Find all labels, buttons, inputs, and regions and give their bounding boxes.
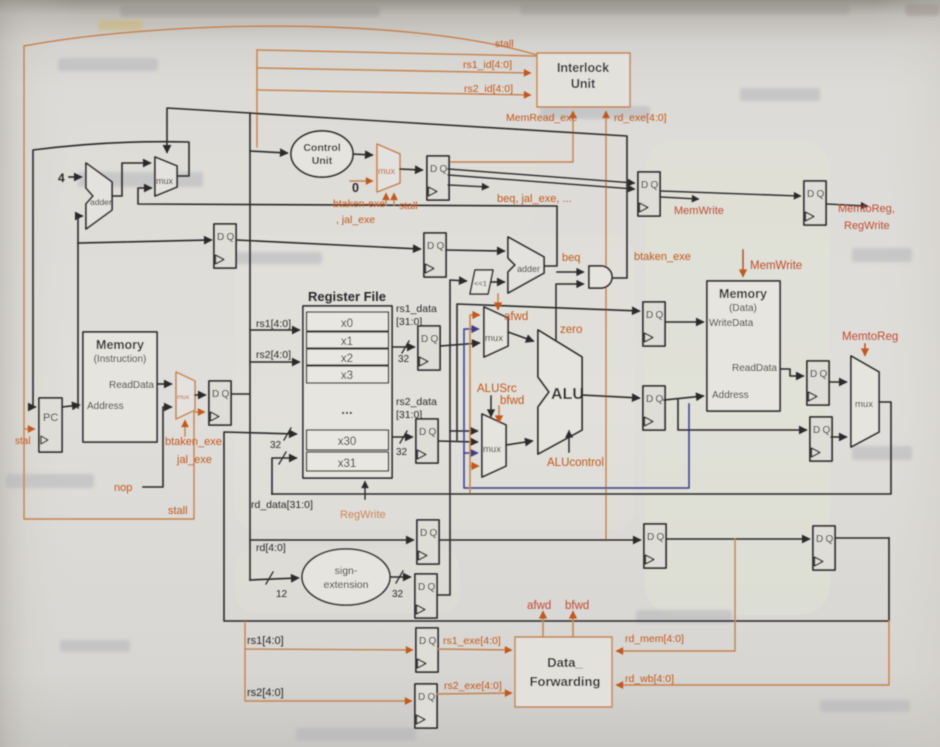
svg-text:stall: stall [168,505,188,517]
wire imm from bus to sign-extension [250,578,298,580]
svg-text:adder: adder [90,197,112,207]
slash 32 on rs1_data [402,341,409,353]
wire DQ-G rs1_data into afwd mux [440,343,479,346]
svg-text:WriteData: WriteData [709,318,754,329]
slash 32 on rs2_data [400,431,407,443]
svg-text:PC: PC [43,412,58,424]
svg-text:MemtoReg,: MemtoReg, [838,203,895,215]
register row x31 [307,452,389,471]
flip-flop DQ-M (rd EX) [417,520,439,564]
wire ALU result to DQ-J [582,395,639,398]
wire DQ-E control to DQ-F [660,191,800,196]
svg-text:, jal_exe: , jal_exe [336,214,375,226]
svg-text:stall: stall [399,200,418,212]
wire rd lane from bus to DQ-M [250,539,413,541]
wire adder out to PC mux [112,163,150,196]
wire 4 into adder [69,176,81,178]
svg-text:adder: adder [517,264,540,274]
PC register [39,398,62,452]
svg-text:x2: x2 [341,353,353,365]
svg-text:Register File: Register File [308,289,386,304]
wire MemtoReg arrow into mux [864,344,866,355]
AND gate [589,266,612,288]
wire ALUcontrol arrow into ALU [568,431,570,452]
wire PC value to IF/ID DQ-B [78,240,211,243]
svg-text:x0: x0 [341,318,353,330]
Data_Forwarding box [515,637,612,707]
wire PC-mux output loop around left [33,142,189,407]
svg-text:afwd: afwd [504,311,528,323]
svg-text:ALU: ALU [551,386,584,403]
svg-text:mux: mux [483,444,501,455]
wire DQ-I out to WriteData [665,321,703,323]
wire sign-extension out to DQ-N [390,576,410,578]
wire 0 into control mux [350,180,372,182]
wire DQ-H rs2_data into bfwd mux [439,441,477,442]
wire afwd output arrow up [542,612,544,637]
flip-flop DQ-F (MEM/WB control) [804,181,826,225]
wire bfwd mux out to ALU [506,441,532,445]
wire imm branch into bfwd mux [450,430,477,432]
wire ReadData to instr mux [157,383,171,385]
wire rd lane DQ-M to DQ-O [440,539,640,541]
svg-text:Memory: Memory [719,287,767,301]
wire MemtoReg RegWrite annotation arrow [826,204,867,206]
flip-flop DQ-J (ALU result MEM) [643,386,665,430]
svg-text:rs2_id[4:0]: rs2_id[4:0] [464,83,513,95]
wire imm vertical x450 (DQ-N up to shift1 and bfwd mux) [437,280,466,595]
wire orange forwarding from WB rd_data [470,315,479,493]
wire btaken_exe/jal_exe up into instr mux [184,421,186,436]
svg-text:mux: mux [378,166,396,176]
svg-text:bfwd: bfwd [500,395,524,407]
wire instr mux to DQ-A [195,394,205,396]
flip-flop DQ-B (IF/ID pc) [214,224,236,268]
wire DQ-P out joining write-back lane [836,537,889,539]
wire rs1_id into Interlock [257,68,530,73]
wire rs1_exe to Data_Forwarding [438,649,511,650]
svg-text:32: 32 [270,440,282,451]
Memory (Instruction) box [83,332,157,442]
svg-text:extension: extension [324,579,369,591]
wire DQ-L out to mux [831,436,846,438]
wire rd_data hook into RF (x31 write data) [272,458,296,494]
flip-flop DQ-C (ID/EX pc) [424,233,446,277]
wire MemRead_exe up into Interlock [448,112,573,162]
wire beq into AND gate [557,271,583,273]
flip-flop DQ-K (ReadData WB) [807,361,829,405]
Control Unit ellipse [291,131,353,177]
svg-text:ReadData: ReadData [732,363,777,374]
register row x1 [307,332,389,348]
wire DQ-B out to DQ-C [237,240,420,249]
wire stall straight into Interlock [257,50,537,56]
svg-text:rd_exe[4:0]: rd_exe[4:0] [614,112,667,124]
svg-text:rs1_id[4:0]: rs1_id[4:0] [463,59,512,71]
wire branch target feedback (adder out left to PC mux) [138,188,557,266]
svg-text:stall: stall [495,38,514,50]
flip-flop DQ-N (imm EX) [415,574,437,618]
wire stall arrow into PC [24,428,34,430]
wire store-data to DQ-I [457,304,639,440]
svg-text:afwd: afwd [527,600,551,612]
wire bfwd control arrow into bfwd mux [498,406,500,422]
svg-text:btaken_exe: btaken_exe [634,251,691,263]
svg-text:stal: stal [15,436,31,447]
slash 12 on imm [266,572,273,584]
wire PC out up to +4 adder [78,216,82,408]
svg-text:x31: x31 [338,458,357,470]
adder PC+4 [86,163,112,229]
mux control (orange) [377,144,400,192]
mux PC (next-PC select) [155,157,177,196]
wire ALU result bypass to DQ-L [678,400,806,430]
wire navy forwarding from MEM stage [464,329,689,488]
Interlock Unit box [537,53,630,107]
svg-text:32: 32 [398,354,410,365]
svg-text:MemWrite: MemWrite [674,205,724,217]
wire rd lane DQ-O to DQ-P [666,538,809,540]
svg-text:sign-: sign- [335,565,358,577]
flip-flop DQ-A (IF/ID instruction) [209,381,231,425]
svg-text:mux: mux [156,176,174,186]
wire ALUSrc control arrow into bfwd mux [490,396,492,416]
wire DQ-K out to mux [830,381,846,383]
svg-text:rs1_exe[4:0]: rs1_exe[4:0] [443,635,501,647]
wire DQ-D control lines to DQ-E [448,169,634,183]
svg-text:Address: Address [87,401,124,412]
svg-text:x3: x3 [341,370,353,382]
wire RF rs1_data out to DQ-G [392,346,414,348]
svg-text:btaken_exe,: btaken_exe, [165,436,225,448]
svg-text:Forwarding: Forwarding [530,674,601,689]
svg-text:ReadData: ReadData [109,380,154,391]
wire afwd control arrow into mux [497,294,499,309]
register row x3 [307,366,389,383]
wire afwd mux out to ALU [508,332,533,341]
svg-text:Interlock: Interlock [557,61,609,75]
svg-text:x30: x30 [338,436,357,448]
svg-text:Unit: Unit [312,155,333,167]
svg-text:rd[4:0]: rd[4:0] [256,542,286,554]
wire rs2_exe to Data_Forwarding [437,693,511,694]
svg-text:<<1: <<1 [474,279,487,288]
Memory (Data) box [707,281,780,411]
wire RF rs2_data out to DQ-H [392,436,412,438]
svg-text:32: 32 [396,447,408,458]
flip-flop DQ-E (EX/MEM control) [638,172,660,216]
svg-text:Memory: Memory [96,338,144,352]
wire btaken-exe up into control mux [385,194,387,205]
svg-text:jal_exe: jal_exe [176,454,212,466]
wire PC out to Address [62,405,79,407]
wire rd_wb orange to Data_Forwarding [617,621,889,685]
wire stall left vertical + bottom loop to PC and IF/ID [24,46,204,519]
register row x0 [307,312,389,331]
svg-text:RegWrite: RegWrite [340,509,386,521]
wire bfwd output arrow up [572,612,574,637]
wire btaken feedback (AND gate up/left to PC mux) [167,108,627,278]
mux instruction (orange) [176,372,195,419]
wire DQ-J out to Address [664,396,703,400]
svg-text:Unit: Unit [571,77,596,91]
ALU [538,330,582,454]
wire rs1 into Register File [250,329,299,331]
svg-text:12: 12 [276,589,288,600]
flip-flop DQ-O (rd MEM) [644,524,666,568]
wire orange vertical feeder at x257 [256,50,258,147]
flip-flop DQ-P (rd WB) [813,526,835,570]
svg-text:Control: Control [303,142,340,154]
svg-text:rs2_exe[4:0]: rs2_exe[4:0] [444,680,502,692]
svg-text:Data_: Data_ [547,655,583,670]
svg-text:zero: zero [560,324,582,336]
svg-text:4: 4 [58,171,65,185]
wire instruction to Control Unit [250,151,287,153]
mux MemtoReg (WB) [851,356,879,447]
wire rs2 into Register File [250,361,299,363]
flip-flop DQ-H (rs2_data EX) [416,419,438,463]
svg-text:rd_wb[4:0]: rd_wb[4:0] [625,673,674,685]
wire rd_wb write-back lane into RF (x30 write port) [224,432,889,621]
svg-text:MemRead_exe: MemRead_exe [506,112,577,124]
svg-text:nop: nop [114,482,132,494]
wire orange branch into bfwd mux [470,465,478,467]
flip-flop DQ-Q (rs1 EX) [416,628,438,672]
svg-text:bfwd: bfwd [565,600,589,612]
wire rd_data return (WB mux out, down and left) [272,402,891,494]
wire rs2 bottom lane [245,649,411,701]
wire nop into instr mux [143,407,171,487]
svg-text:beq: beq [562,252,580,264]
flip-flop DQ-L (ALU result WB) [810,417,832,461]
mux afwd (ALU A input) [484,307,508,357]
wire instruction bus vertical [232,113,250,580]
flip-flop DQ-I (store data MEM) [643,302,665,346]
flip-flop DQ-R (rs2 EX) [415,684,437,728]
register row x2 [307,349,389,365]
svg-text:mux: mux [177,394,190,401]
Register File box [303,306,392,478]
svg-text:ALUcontrol: ALUcontrol [547,457,604,469]
wire ReadData to DQ-K [780,369,803,376]
wire MemWrite annotation arrow [660,197,698,199]
wire rd_exe vertical (Interlock down to rd lane) [605,112,607,540]
svg-text:rs1_data: rs1_data [396,303,437,315]
slash 32 on write port [284,428,291,440]
svg-text:(Data): (Data) [729,303,757,314]
svg-text:rd_mem[4:0]: rd_mem[4:0] [625,633,684,645]
svg-text:ALUSrc: ALUSrc [477,383,517,395]
svg-text:rs2_data: rs2_data [396,396,437,408]
wire Control Unit to control mux [353,154,372,155]
svg-text:x1: x1 [341,336,353,348]
wire rs1 bottom lane [245,622,412,650]
svg-text:(Instruction): (Instruction) [94,354,147,365]
svg-text:Address: Address [712,390,749,401]
wire beq jal_exe annotation arrow [448,185,488,187]
wire stall up into control mux [393,194,395,205]
wire rd_mem orange to Data_Forwarding [617,539,735,651]
svg-text:0: 0 [352,181,359,195]
flip-flop DQ-G (rs1_data EX) [418,326,440,370]
wire DQ-C out to branch adder [446,250,504,251]
svg-text:rs1[4:0]: rs1[4:0] [256,318,291,330]
shift left 1 box [470,270,493,294]
wire navy branch into bfwd mux [464,452,477,454]
wire shift1 out to adder [491,281,504,283]
svg-text:mux: mux [485,333,503,344]
svg-text:...: ... [341,401,353,417]
svg-text:beq, jal_exe, ...: beq, jal_exe, ... [497,193,572,205]
wire control mux to DQ-D [400,169,422,170]
svg-text:32: 32 [392,589,404,600]
svg-text:rd_data[31:0]: rd_data[31:0] [251,499,313,511]
sign-extension ellipse [302,549,390,605]
register row x30 [307,430,389,450]
svg-text:RegWrite: RegWrite [844,220,890,232]
mux bfwd (ALU B input) [482,414,506,477]
svg-text:mux: mux [855,399,873,410]
svg-text:MemWrite: MemWrite [750,260,802,272]
svg-text:rs2[4:0]: rs2[4:0] [247,687,284,699]
wire zero from ALU top into AND gate [556,284,583,341]
flip-flop DQ-D (ID/EX control) [427,156,449,200]
slash on rd_data hook [279,452,286,464]
adder branch target [508,237,544,293]
svg-text:MemtoReg: MemtoReg [842,331,898,343]
svg-text:btaken-exe: btaken-exe [333,198,385,210]
svg-text:rs1[4:0]: rs1[4:0] [247,635,284,647]
wire MemWrite arrow into Memory (Data) [742,250,744,276]
wire rs2_id into Interlock [257,90,530,95]
svg-text:rs2[4:0]: rs2[4:0] [256,349,291,361]
wire RegWrite up into RF bottom [364,482,366,499]
slash 32 on imm out [396,571,403,583]
wire stall feedback arc (Interlock to left edge) [24,26,537,55]
